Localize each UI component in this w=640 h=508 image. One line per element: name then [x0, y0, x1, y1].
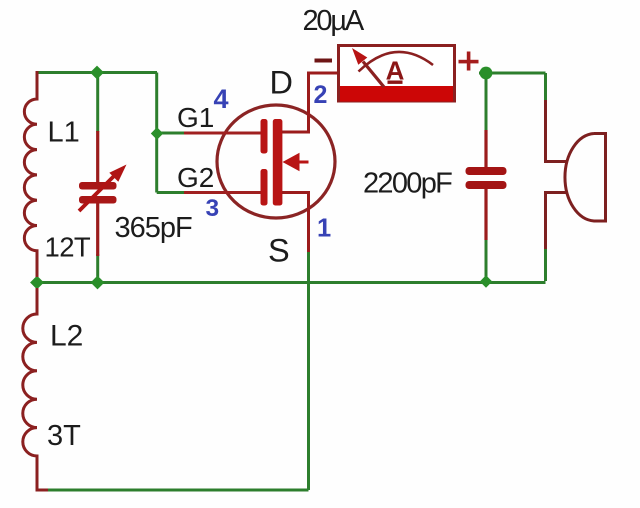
svg-text:G1: G1 — [177, 102, 214, 133]
svg-text:L2: L2 — [50, 320, 83, 353]
svg-text:1: 1 — [317, 215, 331, 243]
svg-text:3T: 3T — [47, 420, 81, 452]
svg-text:2200pF: 2200pF — [363, 167, 452, 199]
svg-text:G2: G2 — [177, 162, 214, 193]
svg-text:D: D — [270, 65, 293, 101]
svg-text:4: 4 — [214, 84, 229, 114]
svg-text:L1: L1 — [48, 117, 80, 149]
svg-text:2: 2 — [314, 81, 328, 109]
svg-text:12T: 12T — [45, 232, 91, 263]
svg-text:3: 3 — [206, 195, 220, 222]
svg-text:365pF: 365pF — [115, 212, 193, 244]
svg-text:S: S — [268, 233, 290, 269]
svg-text:20µA: 20µA — [303, 5, 365, 37]
